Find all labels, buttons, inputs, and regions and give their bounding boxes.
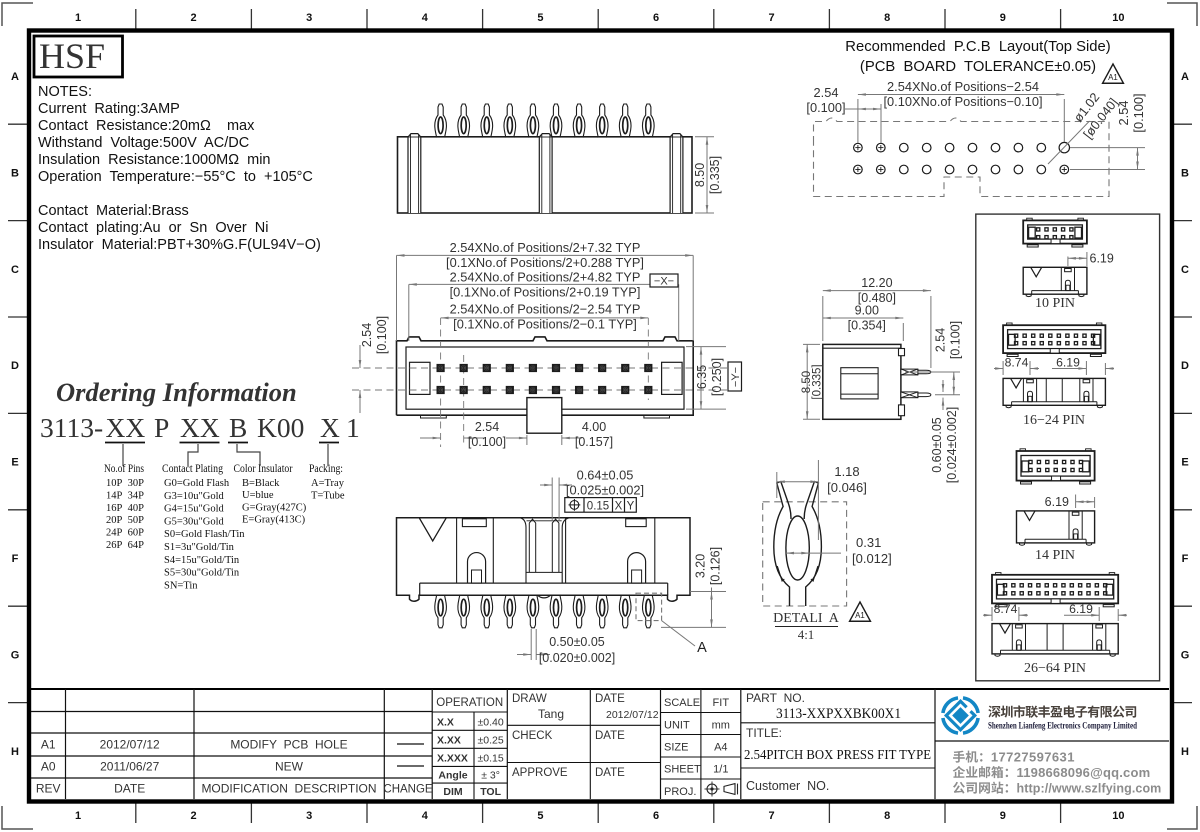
svg-text:MODIFY PCB HOLE: MODIFY PCB HOLE	[230, 738, 347, 752]
svg-text:[0.100]: [0.100]	[806, 100, 845, 115]
svg-text:G5=30u"Gold: G5=30u"Gold	[164, 516, 225, 527]
svg-text:X: X	[320, 412, 340, 443]
front view base step line	[420, 582, 668, 584]
svg-text:[0.335]: [0.335]	[812, 364, 824, 399]
notes text block	[38, 84, 321, 253]
revision change dashes	[397, 743, 424, 745]
side view body outline	[398, 137, 693, 213]
svg-text:2.54: 2.54	[1116, 101, 1131, 126]
svg-text:DRAW: DRAW	[512, 693, 547, 705]
detail A dashed callout box	[636, 593, 662, 620]
svg-text:3113-: 3113-	[40, 412, 103, 443]
front view V notch	[419, 518, 446, 541]
svg-text:mm: mm	[712, 720, 730, 732]
svg-text:UNIT: UNIT	[664, 720, 690, 732]
svg-text:2.54: 2.54	[475, 420, 499, 434]
dimension 3.20 pin length	[690, 591, 726, 593]
svg-text:2012/07/12: 2012/07/12	[606, 709, 659, 721]
svg-text:[0.046]: [0.046]	[827, 480, 867, 495]
svg-text:± 3°: ± 3°	[481, 770, 500, 782]
end view body outline	[823, 344, 901, 419]
svg-text:K00: K00	[257, 412, 304, 443]
dimension 0.50 pin tip width	[530, 629, 532, 660]
svg-text:Contact Plating: Contact Plating	[162, 461, 223, 475]
svg-text:12.20: 12.20	[861, 276, 892, 290]
svg-text:E=Gray(413C): E=Gray(413C)	[242, 515, 306, 526]
end view pins with press section	[901, 369, 918, 375]
variant 10 PIN top view	[1023, 220, 1087, 243]
variant 14 PIN side view	[1017, 511, 1095, 543]
svg-text:0.15: 0.15	[587, 501, 609, 513]
svg-text:DIM: DIM	[443, 786, 463, 798]
svg-text:[0.100]: [0.100]	[1131, 93, 1146, 132]
detail A eye slot	[786, 516, 809, 580]
svg-text:CHECK: CHECK	[512, 730, 553, 742]
svg-text:4: 4	[422, 810, 429, 822]
HSF logo box	[34, 36, 123, 77]
svg-text:A0: A0	[41, 760, 56, 774]
svg-text:Contact Material:Brass: Contact Material:Brass	[38, 203, 189, 219]
draw check approve cells	[507, 724, 660, 726]
svg-text:1: 1	[75, 810, 81, 822]
PCB hole diameter callout	[1048, 121, 1090, 164]
svg-text:2: 2	[191, 810, 197, 822]
svg-text:NEW: NEW	[275, 760, 304, 774]
svg-text:Recommended P.C.B Layout(Top: Recommended P.C.B Layout(Top Side)	[845, 39, 1110, 55]
svg-text:X.X: X.X	[437, 717, 454, 729]
svg-text:14 PIN: 14 PIN	[1035, 548, 1075, 563]
variant 10 PIN side view	[1023, 267, 1087, 294]
svg-text:6.35: 6.35	[695, 365, 709, 389]
svg-text:6.19: 6.19	[1056, 356, 1080, 370]
svg-text:MODIFICATION DESCRIPTION: MODIFICATION DESCRIPTION	[201, 782, 376, 796]
svg-text:Ordering Information: Ordering Information	[56, 377, 297, 407]
svg-text:1/1: 1/1	[713, 764, 728, 776]
top dimension line 3	[441, 317, 649, 319]
svg-text:Color Insulator: Color Insulator	[234, 461, 293, 475]
svg-text:[0.020±0.002]: [0.020±0.002]	[539, 651, 615, 665]
PCB dashed outline	[814, 118, 1110, 197]
svg-text:6.19: 6.19	[1069, 602, 1093, 616]
variant 14 PIN 6.19 dimension	[1075, 495, 1077, 509]
svg-text:1.18: 1.18	[834, 464, 859, 479]
front view center channel with press pins	[520, 518, 569, 583]
svg-text:G0=Gold Flash: G0=Gold Flash	[164, 478, 230, 489]
variant 26-64 dimension 8.74 and 6.19	[991, 607, 993, 621]
variants enclosure box	[976, 214, 1160, 681]
contact email line	[953, 766, 1008, 778]
svg-text:8.74: 8.74	[994, 602, 1018, 616]
variant 10 PIN 6.19 dimension	[1067, 257, 1069, 267]
svg-text:Angle: Angle	[438, 770, 467, 782]
top view center polarization key tab	[527, 398, 562, 434]
svg-text:A=Tray: A=Tray	[311, 478, 345, 489]
svg-text:A: A	[697, 640, 707, 656]
svg-text:17727597631: 17727597631	[991, 750, 1075, 765]
svg-text:G4=15u"Gold: G4=15u"Gold	[164, 504, 225, 515]
svg-text:S5=30u"Gold/Tin: S5=30u"Gold/Tin	[164, 568, 240, 579]
svg-text:[0.100]: [0.100]	[949, 321, 963, 359]
svg-text:Y: Y	[627, 501, 635, 513]
svg-text:[0.250]: [0.250]	[710, 358, 724, 396]
-X- datum box	[650, 274, 678, 287]
projection symbols	[707, 784, 717, 794]
svg-text:B: B	[1181, 167, 1189, 179]
svg-text:H: H	[1181, 746, 1189, 758]
svg-text:5: 5	[537, 12, 543, 24]
front view base bottom center bump	[538, 595, 551, 598]
svg-text:Operation Temperature:−55°C: Operation Temperature:−55°C to +105°C	[38, 169, 313, 185]
svg-text:0.60±0.05: 0.60±0.05	[930, 417, 944, 473]
front view bottom press-fit pins	[435, 595, 654, 628]
svg-text:2011/06/27: 2011/06/27	[100, 760, 159, 774]
right dimension 6.35 of top view	[686, 346, 726, 348]
svg-text:±0.15: ±0.15	[477, 753, 503, 765]
svg-text:NOTES:: NOTES:	[38, 84, 92, 100]
svg-text:OPERATION: OPERATION	[436, 697, 503, 709]
svg-text:9: 9	[1000, 810, 1006, 822]
svg-text:No.of Pins: No.of Pins	[104, 461, 144, 475]
dimension 0.64 press pin width	[551, 478, 553, 522]
svg-text:8.50: 8.50	[693, 163, 707, 187]
svg-text:2.54: 2.54	[934, 328, 948, 352]
svg-text:Current Rating:3AMP: Current Rating:3AMP	[38, 101, 180, 117]
svg-text:S1=3u"Gold/Tin: S1=3u"Gold/Tin	[164, 542, 235, 553]
svg-text:10: 10	[1112, 810, 1124, 822]
svg-text:S4=15u"Gold/Tin: S4=15u"Gold/Tin	[164, 555, 240, 566]
svg-text:DATE: DATE	[114, 782, 145, 796]
bottom dimension 2.54 between first columns	[420, 437, 441, 439]
svg-text:2.54XNo.of Positions/2−2.54 TY: 2.54XNo.of Positions/2−2.54 TYP	[450, 302, 641, 317]
part no cell	[741, 722, 935, 724]
svg-text:REV: REV	[36, 782, 61, 796]
svg-text:DETALI A: DETALI A	[773, 611, 840, 626]
front view keyhole right	[628, 553, 646, 584]
svg-text:B=Black: B=Black	[242, 478, 280, 489]
svg-text:[0.354]: [0.354]	[848, 319, 886, 333]
svg-text:TOL: TOL	[480, 786, 501, 798]
svg-text:0.31: 0.31	[856, 535, 881, 550]
bottom dimension 4.00 key width	[526, 435, 528, 445]
svg-text:7: 7	[769, 12, 775, 24]
svg-text:2.54: 2.54	[360, 323, 374, 347]
side view press-fit pins row	[435, 104, 654, 138]
svg-text:8: 8	[884, 810, 890, 822]
svg-text:SCALE: SCALE	[664, 697, 700, 709]
variant 16-24 PIN side view	[1003, 378, 1105, 405]
svg-text:10P 30P: 10P 30P	[106, 478, 144, 489]
svg-text:(PCB BOARD TOLERANCE±0.05): (PCB BOARD TOLERANCE±0.05)	[860, 59, 1096, 75]
svg-text:[0.157]: [0.157]	[575, 435, 613, 449]
operation tolerance sub-table	[432, 689, 1169, 799]
part number underlines	[105, 442, 145, 444]
svg-text:3.20: 3.20	[694, 554, 708, 578]
warning triangle near detail A	[850, 602, 871, 621]
ordering leader lines	[122, 444, 124, 466]
svg-text:6.19: 6.19	[1090, 252, 1114, 266]
svg-text:2.54XNo.of Positions/2+7.32 TY: 2.54XNo.of Positions/2+7.32 TYP	[450, 240, 641, 255]
svg-text:PART NO.: PART NO.	[746, 691, 805, 705]
svg-text:[0.024±0.002]: [0.024±0.002]	[945, 407, 959, 483]
svg-text:Insulation Resistance:1000MΩ: Insulation Resistance:1000MΩ min	[38, 152, 270, 168]
svg-text:SIZE: SIZE	[664, 742, 688, 754]
svg-text:3: 3	[306, 810, 312, 822]
svg-text:D: D	[1181, 360, 1189, 372]
svg-text:9: 9	[1000, 12, 1006, 24]
svg-text:4.00: 4.00	[582, 420, 606, 434]
svg-text:0.64±0.05: 0.64±0.05	[577, 468, 634, 483]
svg-text:10 PIN: 10 PIN	[1035, 296, 1075, 311]
svg-text:DATE: DATE	[595, 693, 625, 705]
svg-text:2.54XNo.of Positions/2+4.82 TY: 2.54XNo.of Positions/2+4.82 TYP	[450, 270, 641, 285]
company chinese name	[988, 705, 1136, 718]
top view pin markers two rows	[438, 365, 652, 393]
svg-text:A: A	[11, 71, 19, 83]
svg-text:Shenzhen Lianfeng Electronics: Shenzhen Lianfeng Electronics Company Li…	[988, 722, 1138, 732]
svg-text:C: C	[1181, 264, 1189, 276]
contact phone line	[953, 751, 982, 763]
svg-text:T=Tube: T=Tube	[311, 490, 345, 501]
svg-text:Contact plating:Au or Sn O: Contact plating:Au or Sn Over Ni	[38, 220, 269, 236]
svg-text:H: H	[11, 746, 19, 758]
svg-text:A1: A1	[41, 738, 56, 752]
svg-text:4:1: 4:1	[798, 627, 815, 642]
front view keyhole left	[468, 553, 486, 584]
svg-text:E: E	[11, 457, 18, 469]
svg-text:F: F	[12, 553, 19, 565]
variant 16-24 dimension 8.74 and 6.19	[1002, 361, 1004, 375]
end view inner slot	[841, 368, 878, 399]
svg-text:[0.012]: [0.012]	[852, 551, 892, 566]
svg-text:[0.1XNo.of Positions/2−0.1 TYP: [0.1XNo.of Positions/2−0.1 TYP]	[453, 317, 637, 332]
svg-text:XX: XX	[106, 412, 146, 443]
svg-text:2.54: 2.54	[814, 85, 839, 100]
svg-text:3113-XXPXXBK00X1: 3113-XXPXXBK00X1	[776, 706, 901, 722]
top dimension line 2	[408, 284, 410, 341]
svg-text:A1: A1	[855, 611, 865, 620]
svg-text:1: 1	[346, 412, 360, 443]
title block top line	[31, 688, 1169, 690]
top view inner outline	[406, 347, 684, 409]
svg-text:HSF: HSF	[39, 36, 105, 76]
scale unit size sheet proj cells	[661, 712, 741, 714]
svg-text:XX: XX	[180, 412, 220, 443]
top dimension line 1	[396, 255, 398, 341]
company logo	[943, 698, 978, 733]
svg-text:24P 60P: 24P 60P	[106, 528, 144, 539]
svg-text:E: E	[1181, 457, 1188, 469]
svg-text:8.74: 8.74	[1005, 356, 1029, 370]
feature control frame	[565, 498, 637, 513]
svg-text:SN=Tin: SN=Tin	[164, 580, 198, 591]
svg-text:X.XX: X.XX	[437, 735, 461, 747]
svg-text:26−64 PIN: 26−64 PIN	[1024, 661, 1086, 676]
-Y- datum box	[728, 362, 742, 391]
svg-text:3: 3	[306, 12, 312, 24]
revision table column lines	[65, 689, 67, 799]
variant 16-24 PIN top view	[1003, 325, 1105, 353]
svg-text:D: D	[11, 360, 19, 372]
PCB dimension 2.54 row spacing right	[1070, 147, 1145, 149]
svg-text:6: 6	[653, 810, 659, 822]
svg-text:[0.1XNo.of Positions/2+0.19 TY: [0.1XNo.of Positions/2+0.19 TYP]	[450, 285, 641, 300]
svg-text:[0.100]: [0.100]	[375, 316, 389, 354]
svg-text:7: 7	[769, 810, 775, 822]
warning triangle top right	[1103, 64, 1124, 83]
svg-text:[0.025±0.002]: [0.025±0.002]	[566, 483, 644, 498]
svg-text:Withstand Voltage:500V AC/DC: Withstand Voltage:500V AC/DC	[38, 135, 249, 151]
svg-text:G: G	[1181, 649, 1190, 661]
dimension 8.50 height of side view	[695, 136, 714, 138]
svg-text:20P 50P: 20P 50P	[106, 515, 144, 526]
svg-text:−X−: −X−	[654, 276, 674, 288]
end view top lid line	[823, 347, 901, 349]
svg-text:Contact Resistance:20mΩ ma: Contact Resistance:20mΩ max	[38, 118, 255, 134]
svg-text:B: B	[229, 412, 247, 443]
svg-text:APPROVE: APPROVE	[512, 767, 568, 779]
top view left end slot	[410, 362, 431, 394]
contact website line	[953, 782, 1008, 794]
front view partition lines	[456, 518, 458, 583]
svg-text:26P 64P: 26P 64P	[106, 540, 144, 551]
svg-text:[0.100]: [0.100]	[468, 435, 506, 449]
svg-text:10: 10	[1112, 12, 1124, 24]
svg-text:6: 6	[653, 12, 659, 24]
svg-text:G: G	[11, 649, 20, 661]
svg-text:F: F	[1182, 553, 1189, 565]
svg-text:C: C	[11, 264, 19, 276]
svg-text:P: P	[154, 412, 169, 443]
svg-text:[0.126]: [0.126]	[709, 547, 723, 585]
svg-text:A: A	[1181, 71, 1189, 83]
svg-text:DATE: DATE	[595, 730, 625, 742]
dimension 0.60 pin thickness end view	[942, 380, 944, 392]
svg-text:2.54PITCH BOX PRESS FIT TYPE: 2.54PITCH BOX PRESS FIT TYPE	[744, 747, 931, 762]
svg-text:CHANGE: CHANGE	[383, 784, 433, 796]
svg-text:1198668096@qq.com: 1198668096@qq.com	[1017, 765, 1151, 780]
svg-text:6.19: 6.19	[1045, 495, 1069, 509]
side view mounting posts	[408, 134, 421, 213]
svg-text:[0.10XNo.of Positions−0.10]: [0.10XNo.of Positions−0.10]	[884, 94, 1043, 109]
variant 14 PIN top view	[1017, 451, 1095, 481]
detail A leader line and label	[662, 621, 695, 646]
detail A side notch slivers	[777, 566, 818, 581]
detail A dashed border	[763, 502, 847, 606]
top view row centerlines dashed	[352, 367, 740, 369]
top view right end slot	[662, 362, 683, 394]
dimension 8.50 end view height	[803, 343, 820, 345]
svg-text:5: 5	[537, 810, 543, 822]
svg-text:SHEET: SHEET	[664, 764, 701, 776]
svg-text:1: 1	[75, 12, 81, 24]
PCB holes rows	[854, 142, 1070, 173]
svg-text:Insulator Material:PBT+30%G.F: Insulator Material:PBT+30%G.F(UL94V−O)	[38, 237, 321, 253]
svg-text:±0.25: ±0.25	[477, 735, 503, 747]
variant 26-64 PIN top view	[992, 575, 1118, 604]
svg-text:−Y−: −Y−	[730, 367, 742, 387]
top view outer body outline with polarization bumps	[397, 337, 694, 415]
svg-text:DATE: DATE	[595, 767, 625, 779]
svg-text:2.54XNo.of Positions−2.54: 2.54XNo.of Positions−2.54	[887, 79, 1039, 94]
svg-text:16−24 PIN: 16−24 PIN	[1023, 413, 1085, 428]
detail A eye-of-needle pin enlarged	[774, 482, 791, 607]
svg-text:4: 4	[422, 12, 429, 24]
svg-text:Tang: Tang	[538, 707, 564, 721]
svg-text:B: B	[11, 167, 19, 179]
svg-text:Customer NO.: Customer NO.	[746, 779, 829, 793]
svg-text:2: 2	[191, 12, 197, 24]
svg-text:TITLE:: TITLE:	[746, 726, 782, 740]
revision table row lines	[31, 712, 432, 779]
front view latch cutout right	[626, 519, 647, 527]
svg-text:G=Gray(427C): G=Gray(427C)	[242, 502, 307, 513]
svg-text:2012/07/12: 2012/07/12	[100, 738, 160, 752]
svg-text:14P 34P: 14P 34P	[106, 490, 144, 501]
svg-text:9.00: 9.00	[855, 304, 879, 318]
svg-text:G3=10u"Gold: G3=10u"Gold	[164, 491, 225, 502]
svg-text:8: 8	[884, 12, 890, 24]
company block divider	[935, 740, 1169, 742]
top view bottom edge feet	[421, 415, 447, 418]
front view latch cutout left	[462, 519, 486, 527]
svg-text:0.50±0.05: 0.50±0.05	[549, 635, 605, 649]
svg-text:X.XXX: X.XXX	[437, 753, 468, 765]
svg-text:A4: A4	[714, 742, 727, 754]
svg-text:A1: A1	[1108, 73, 1118, 82]
svg-text:[0.1XNo.of Positions/2+0.288 T: [0.1XNo.of Positions/2+0.288 TYP]	[446, 255, 644, 270]
end view right tabs	[899, 349, 905, 356]
svg-text:S0=Gold Flash/Tin: S0=Gold Flash/Tin	[164, 529, 245, 540]
svg-text:U=blue: U=blue	[242, 490, 274, 501]
variant 26-64 PIN side view	[992, 624, 1118, 654]
dimension 2.54 pin spacing end view	[905, 371, 960, 373]
svg-text:±0.40: ±0.40	[477, 717, 503, 729]
svg-text:FIT: FIT	[713, 697, 730, 709]
front view body outline with base flange	[397, 518, 691, 601]
svg-text:http://www.szlfying.com: http://www.szlfying.com	[1017, 782, 1162, 796]
svg-text:X: X	[615, 501, 623, 513]
svg-text:Packing:: Packing:	[309, 461, 343, 475]
top view column centerlines dashed	[440, 318, 442, 447]
svg-text:[0.335]: [0.335]	[708, 156, 722, 194]
svg-text:16P 40P: 16P 40P	[106, 503, 144, 514]
svg-text:PROJ.: PROJ.	[664, 786, 696, 798]
